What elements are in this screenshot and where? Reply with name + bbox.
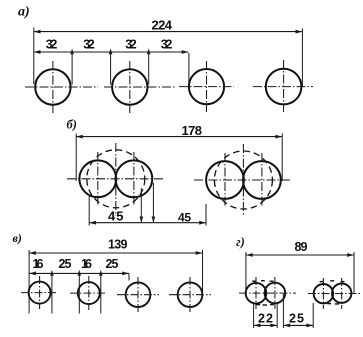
extension line right of 178	[281, 134, 283, 182]
extension line left of 224	[33, 28, 35, 85]
hole G3	[314, 284, 333, 303]
center lines hole V1	[21, 276, 57, 309]
hole V1	[29, 282, 51, 304]
svg-text:25: 25	[106, 257, 119, 271]
extension line at 51.9	[51, 275, 53, 314]
chain tick at 51.9	[50, 270, 54, 276]
hole G1	[246, 283, 267, 304]
extension line right of 89	[353, 252, 355, 293]
extension line mid-left 45 with arrow	[140, 188, 142, 223]
hole V4	[178, 282, 203, 307]
chain tick at 100.8	[99, 270, 103, 276]
hole A4	[266, 69, 302, 105]
hole B2	[115, 160, 152, 197]
center lines hole A4	[253, 60, 313, 112]
extension line left 45	[88, 195, 90, 226]
center lines group G1	[239, 277, 296, 309]
extension line 22 right	[276, 303, 278, 328]
extension line 25 right	[312, 303, 314, 328]
chain dimension line 16+25+16+25	[29, 272, 129, 274]
hole A2	[112, 69, 147, 104]
svg-text:139: 139	[108, 238, 128, 252]
dimension line 45+45	[89, 221, 206, 225]
center lines hole A3	[179, 61, 234, 112]
dimension line 89	[246, 253, 354, 257]
center lines hole V3	[117, 277, 159, 312]
center lines group G2	[308, 278, 361, 309]
chain arrow left	[34, 50, 41, 54]
hole G2	[265, 283, 286, 304]
center lines hole A1	[25, 61, 98, 113]
extension line v-left	[28, 250, 30, 314]
slot tangent dashed bottom G34	[327, 303, 339, 305]
svg-text:178: 178	[182, 123, 203, 138]
svg-text:224: 224	[152, 18, 173, 33]
extension line at 79.3	[78, 275, 80, 314]
chain tick at 79.3	[78, 270, 82, 276]
hole V2	[78, 282, 100, 304]
svg-text:32: 32	[83, 37, 95, 51]
center lines group B2	[194, 144, 291, 216]
chain tick 1	[70, 49, 74, 55]
extension line 25 left	[282, 294, 284, 328]
extension line right of 224	[301, 29, 303, 88]
extension line left of 178	[75, 134, 77, 182]
svg-text:16: 16	[81, 257, 92, 271]
extension stub at 72	[71, 53, 73, 85]
extension line right 45	[205, 204, 207, 226]
extension stub at 188.5	[188, 53, 190, 82]
svg-text:25: 25	[289, 311, 304, 325]
dimension line 178	[76, 135, 282, 139]
chain tick 3	[147, 49, 151, 55]
hole V3	[126, 282, 151, 307]
center lines group B1	[67, 143, 164, 216]
enlarged hole B12 dashed	[87, 150, 145, 208]
dimension chain line 32x4	[34, 51, 189, 53]
extension line right of 139	[202, 250, 204, 295]
extension line left of 89	[245, 252, 247, 291]
chain arrow right	[122, 272, 129, 276]
extension stub at 110.6	[110, 53, 112, 85]
slot tangent dashed bottom G12	[255, 304, 273, 306]
svg-text:89: 89	[295, 240, 308, 254]
svg-text:б): б)	[67, 118, 77, 132]
dimension line 25	[283, 324, 313, 328]
chain arrow left	[29, 272, 36, 276]
svg-text:32: 32	[46, 37, 58, 51]
slot tangent dashed top G12	[252, 280, 273, 283]
svg-text:г): г)	[236, 235, 245, 249]
svg-text:32: 32	[125, 37, 137, 51]
chain tick 2	[109, 49, 113, 55]
dimension line 22	[254, 324, 278, 328]
hole B4	[243, 161, 281, 199]
extension stub at 148.7	[148, 53, 150, 85]
chain arrow right	[182, 50, 189, 54]
svg-text:22: 22	[258, 311, 273, 325]
dimension line 139	[29, 251, 202, 255]
hole B3	[206, 161, 244, 199]
slot tangent dashed top G34	[320, 280, 345, 283]
svg-text:16: 16	[33, 257, 44, 271]
center lines hole A2	[104, 61, 176, 113]
hole A1	[35, 69, 70, 104]
dimension line 224	[34, 30, 303, 34]
extension stub at 129	[128, 273, 130, 280]
extension line 22 left	[253, 303, 255, 328]
hole G4	[332, 284, 351, 303]
enlarged hole B34 dashed	[214, 151, 272, 209]
svg-text:а): а)	[18, 5, 30, 20]
center lines hole V2	[70, 276, 106, 310]
hole A3	[189, 69, 224, 104]
svg-text:25: 25	[59, 257, 72, 271]
svg-text:в): в)	[13, 231, 22, 245]
center lines hole V4	[169, 277, 211, 312]
svg-text:45: 45	[178, 210, 191, 224]
svg-text:32: 32	[161, 37, 173, 51]
svg-text:45: 45	[108, 208, 124, 223]
extension line at 100.8	[100, 275, 102, 314]
hole B1	[79, 160, 116, 197]
extension line mid-right 45 with arrow	[152, 183, 154, 223]
